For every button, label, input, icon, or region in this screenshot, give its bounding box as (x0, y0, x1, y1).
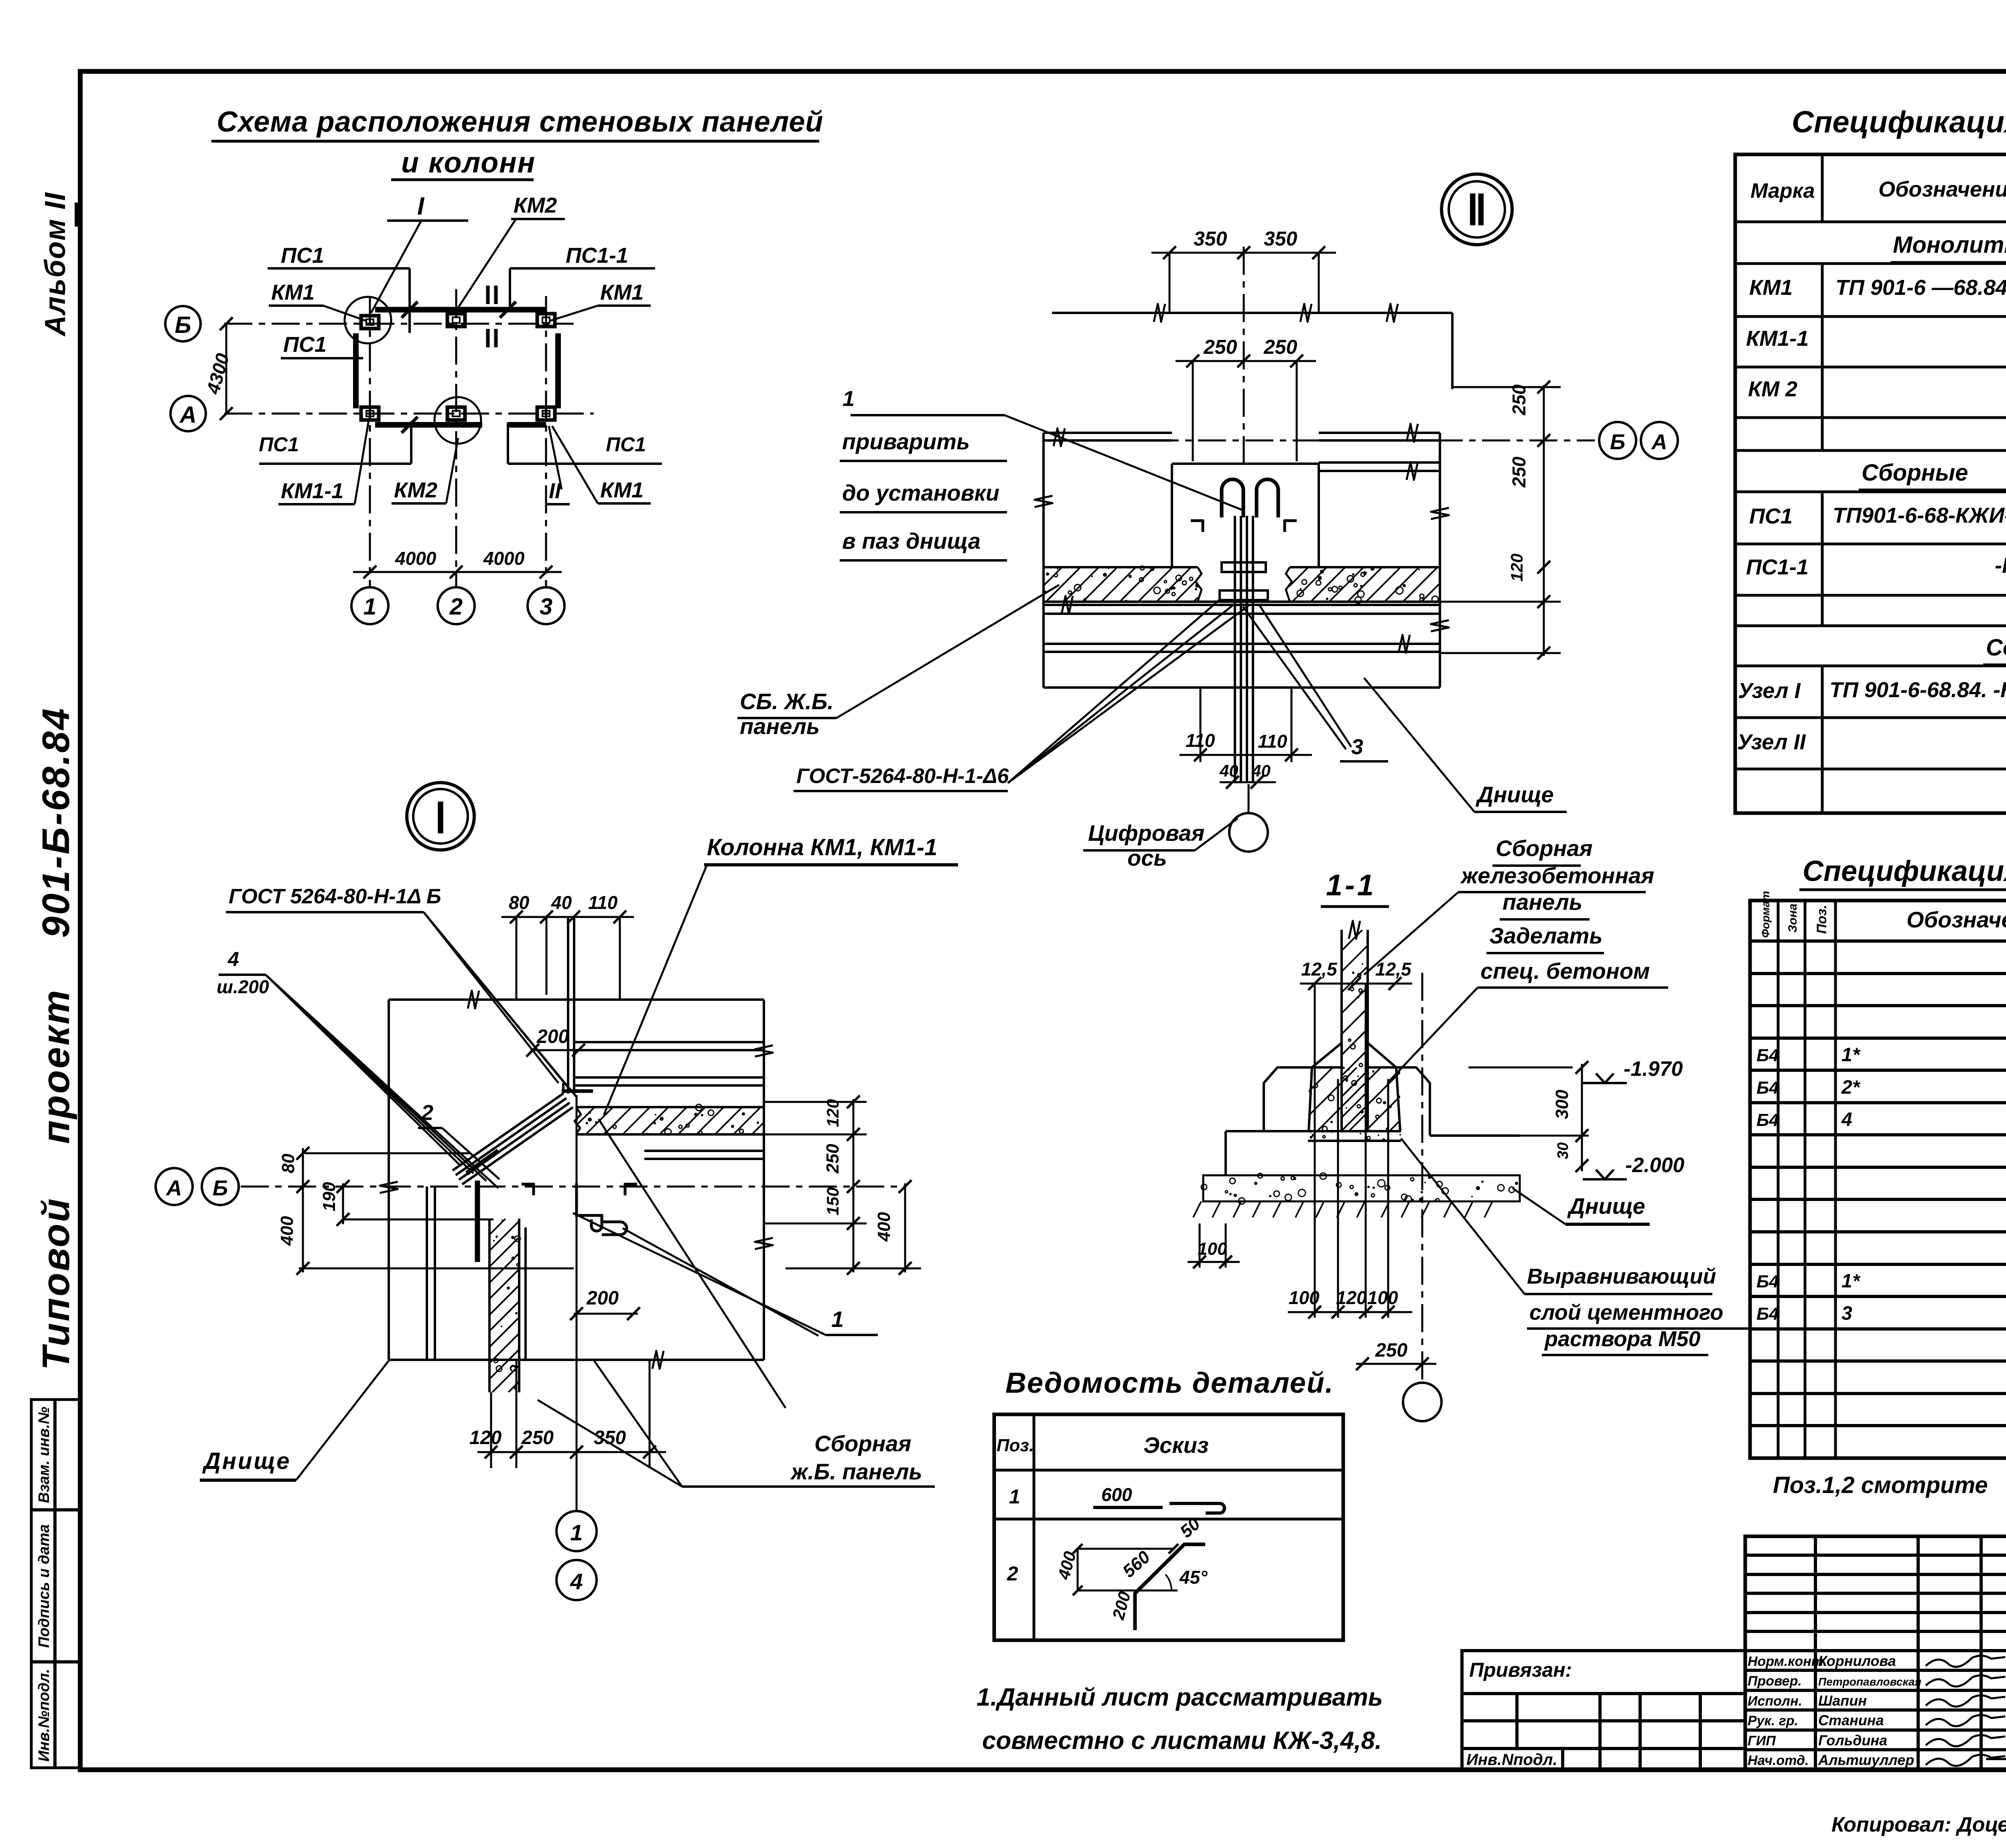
svg-text:Б4: Б4 (1756, 1046, 1779, 1065)
svg-text:350: 350 (1194, 227, 1227, 250)
svg-text:400: 400 (874, 1212, 894, 1242)
svg-text:ПС1: ПС1 (259, 433, 299, 456)
svg-text:Норм.конт.: Норм.конт. (1748, 1654, 1827, 1669)
svg-text:Взам. инв.№: Взам. инв.№ (36, 1407, 53, 1503)
svg-text:и колонн: и колонн (401, 147, 536, 179)
svg-text:110: 110 (588, 892, 618, 913)
svg-text:Б: Б (1610, 430, 1625, 454)
svg-text:I: I (417, 193, 425, 220)
svg-text:12,5: 12,5 (1375, 959, 1412, 980)
svg-text:ось: ось (1127, 845, 1167, 870)
svg-text:120: 120 (1507, 554, 1526, 582)
svg-text:Ведомость деталей.: Ведомость деталей. (1005, 1367, 1334, 1399)
svg-text:ш.200: ш.200 (217, 976, 269, 997)
svg-text:Днище: Днище (1476, 782, 1554, 807)
svg-text:Б: Б (213, 1176, 228, 1200)
svg-text:Обозначение: Обозначение (1907, 907, 2006, 932)
svg-text:спец. бетоном: спец. бетоном (1480, 958, 1650, 984)
svg-text:ГОСТ-5264-80-Н-1-Δ6: ГОСТ-5264-80-Н-1-Δ6 (796, 765, 1009, 788)
svg-text:100: 100 (1198, 1239, 1227, 1259)
svg-text:Формат: Формат (1759, 891, 1772, 938)
svg-text:Схема расположения стеновых па: Схема расположения стеновых панелей (217, 106, 823, 138)
svg-text:1*: 1* (1842, 1045, 1861, 1066)
svg-text:Шапин: Шапин (1818, 1692, 1867, 1709)
svg-text:120: 120 (469, 1427, 501, 1448)
svg-text:901-Б-68.84: 901-Б-68.84 (35, 707, 77, 938)
svg-text:раствора М50: раствора М50 (1544, 1327, 1700, 1351)
svg-text:40: 40 (1251, 761, 1271, 780)
svg-text:110: 110 (1258, 731, 1287, 752)
svg-text:1.Данный лист рассматрив: 1.Данный лист рассматривать (977, 1684, 1383, 1711)
svg-text:Б4: Б4 (1756, 1304, 1779, 1324)
svg-text:ПС1-1: ПС1-1 (566, 243, 628, 268)
svg-text:железобетонная: железобетонная (1460, 863, 1654, 888)
svg-text:Днище: Днище (1567, 1193, 1645, 1219)
svg-text:1: 1 (570, 1520, 583, 1545)
svg-text:Альбом II: Альбом II (39, 192, 71, 337)
svg-text:1: 1 (843, 387, 855, 411)
svg-text:-2.000: -2.000 (1625, 1154, 1685, 1177)
svg-text:Днище: Днище (202, 1448, 291, 1474)
svg-text:ТП 901-6 —68.84 КЖ-9: ТП 901-6 —68.84 КЖ-9 (1835, 276, 2006, 300)
svg-text:ПС1: ПС1 (281, 243, 324, 268)
svg-text:80: 80 (278, 1154, 298, 1173)
svg-text:слой цементного: слой цементного (1529, 1300, 1723, 1325)
svg-text:250: 250 (1509, 384, 1529, 416)
svg-text:1: 1 (831, 1306, 844, 1332)
svg-text:—: — (1986, 1745, 2006, 1770)
svg-text:Инв.№подл.: Инв.№подл. (36, 1669, 53, 1761)
svg-text:А: А (166, 1176, 182, 1200)
svg-text:Эскиз: Эскиз (1143, 1432, 1209, 1458)
svg-text:250: 250 (521, 1427, 554, 1448)
svg-text:КМ1: КМ1 (271, 280, 315, 304)
svg-text:Сборные: Сборные (1862, 460, 1968, 486)
svg-text:3: 3 (1842, 1303, 1852, 1324)
svg-text:Копировал: Доценко: Копировал: Доценко (1831, 1813, 2006, 1836)
svg-text:ПС1: ПС1 (606, 433, 646, 456)
svg-text:Узел II: Узел II (1737, 730, 1806, 754)
svg-text:Ⅰ: Ⅰ (434, 796, 447, 842)
svg-text:Обозначение: Обозначение (1878, 177, 2006, 201)
svg-text:80: 80 (509, 892, 530, 913)
svg-text:Монолитные: Монолитные (1893, 232, 2006, 258)
svg-text:Сборная: Сборная (814, 1431, 911, 1456)
svg-text:Узел I: Узел I (1738, 679, 1801, 703)
svg-text:Исполн.: Исполн. (1748, 1694, 1802, 1709)
svg-text:Спецификация: Спецификация (1803, 855, 2006, 887)
svg-text:Б4: Б4 (1756, 1272, 1779, 1292)
svg-text:3: 3 (540, 594, 552, 620)
svg-text:Колонна КМ1, КМ1-1: Колонна КМ1, КМ1-1 (707, 834, 937, 860)
svg-text:1: 1 (363, 594, 376, 620)
svg-text:Сборная: Сборная (1496, 836, 1592, 861)
svg-text:350: 350 (594, 1427, 626, 1448)
svg-text:Гольдина: Гольдина (1818, 1732, 1887, 1749)
svg-text:ГИП: ГИП (1748, 1733, 1776, 1749)
svg-text:ж.Б. панель: ж.Б. панель (790, 1459, 922, 1484)
svg-text:ПС1: ПС1 (1749, 504, 1793, 528)
svg-text:250: 250 (1509, 456, 1529, 488)
svg-text:до установки: до установки (842, 480, 999, 505)
svg-text:-КЖИ-1000: -КЖИ-1000 (1995, 554, 2006, 578)
svg-text:Поз.: Поз. (997, 1436, 1034, 1455)
svg-text:Корнилова: Корнилова (1818, 1653, 1896, 1669)
svg-text:КМ1: КМ1 (600, 478, 644, 502)
svg-text:КМ1-1: КМ1-1 (1746, 327, 1809, 351)
svg-text:3: 3 (1351, 735, 1363, 759)
svg-text:250: 250 (1203, 336, 1237, 358)
svg-text:в паз днища: в паз днища (842, 528, 981, 554)
svg-text:100: 100 (1367, 1287, 1398, 1308)
svg-text:совместно с листами КЖ-3,: совместно с листами КЖ-3,4,8. (982, 1727, 1382, 1755)
svg-text:проект: проект (35, 988, 77, 1144)
svg-text:2: 2 (1007, 1562, 1018, 1585)
svg-text:ТП901-6-68-КЖИ-1000: ТП901-6-68-КЖИ-1000 (1833, 503, 2006, 527)
svg-text:КМ2: КМ2 (514, 193, 557, 217)
svg-text:190: 190 (319, 1182, 339, 1211)
svg-text:250: 250 (1375, 1340, 1407, 1361)
svg-text:1-1: 1-1 (1326, 868, 1376, 902)
svg-text:Спецификация: Спецификация (1792, 105, 2006, 139)
svg-text:120: 120 (1336, 1287, 1367, 1308)
svg-text:4000: 4000 (395, 548, 437, 569)
svg-text:Цифровая: Цифровая (1088, 820, 1204, 846)
svg-text:Заделать: Заделать (1489, 923, 1603, 948)
svg-text:400: 400 (277, 1216, 297, 1246)
svg-text:Выравнивающий: Выравнивающий (1527, 1264, 1716, 1288)
svg-text:панель: панель (740, 714, 820, 739)
svg-text:Б4: Б4 (1756, 1110, 1779, 1130)
svg-text:45°: 45° (1179, 1567, 1208, 1588)
svg-text:4: 4 (570, 1569, 583, 1594)
svg-text:КМ1: КМ1 (600, 280, 644, 304)
svg-text:4000: 4000 (483, 548, 525, 569)
svg-text:ТП 901-6-68.84. -КЖ-2: ТП 901-6-68.84. -КЖ-2 (1829, 678, 2006, 702)
svg-text:110: 110 (1186, 730, 1215, 751)
svg-text:300: 300 (1552, 1089, 1572, 1119)
svg-text:250: 250 (823, 1144, 843, 1174)
svg-text:350: 350 (1264, 227, 1297, 250)
svg-text:100: 100 (1289, 1287, 1320, 1308)
svg-text:ГОСТ 5264-80-Н-1Δ Б: ГОСТ 5264-80-Н-1Δ Б (229, 885, 441, 908)
svg-text:200: 200 (536, 1026, 569, 1047)
svg-text:120: 120 (823, 1099, 842, 1127)
svg-text:2: 2 (449, 594, 463, 620)
svg-text:200: 200 (586, 1288, 619, 1309)
svg-text:Марка: Марка (1750, 179, 1815, 203)
svg-text:1*: 1* (1842, 1271, 1861, 1292)
svg-text:Соединительные: Соединительные (1986, 635, 2006, 661)
svg-text:Зона: Зона (1786, 904, 1799, 933)
svg-text:Рук. гр.: Рук. гр. (1748, 1713, 1798, 1728)
svg-text:КМ1-1: КМ1-1 (281, 479, 343, 503)
svg-text:Ⅱ: Ⅱ (1466, 188, 1487, 234)
svg-text:250: 250 (1263, 336, 1297, 358)
svg-text:КМ1: КМ1 (1749, 276, 1793, 300)
svg-text:Привязан:: Привязан: (1469, 1659, 1572, 1681)
svg-text:600: 600 (1101, 1484, 1132, 1505)
svg-text:А: А (1651, 430, 1667, 454)
svg-text:приварить: приварить (842, 429, 970, 454)
svg-text:4: 4 (1841, 1109, 1852, 1130)
svg-text:Поз.1,2 смотрите: Поз.1,2 смотрите (1773, 1472, 1988, 1498)
svg-text:КМ 2: КМ 2 (1748, 377, 1797, 401)
svg-text:СБ. Ж.Б.: СБ. Ж.Б. (740, 689, 834, 714)
svg-text:А: А (179, 402, 197, 428)
svg-text:Б4: Б4 (1756, 1078, 1779, 1097)
svg-text:150: 150 (823, 1187, 842, 1215)
svg-text:Подпись и дата: Подпись и дата (36, 1524, 53, 1648)
svg-text:2*: 2* (1841, 1077, 1861, 1098)
svg-text:ПС1: ПС1 (283, 333, 327, 357)
svg-text:2: 2 (421, 1101, 433, 1125)
svg-text:Инв.Nподл.: Инв.Nподл. (1466, 1751, 1557, 1769)
svg-text:40: 40 (551, 892, 572, 913)
svg-text:ПС1-1: ПС1-1 (1746, 555, 1809, 579)
svg-text:Провер.: Провер. (1748, 1674, 1802, 1689)
svg-text:40: 40 (1219, 761, 1239, 780)
svg-text:Станина: Станина (1818, 1712, 1884, 1728)
svg-text:30: 30 (1555, 1142, 1572, 1159)
svg-text:Нач.отд.: Нач.отд. (1748, 1753, 1809, 1768)
svg-text:Б: Б (175, 312, 191, 338)
svg-text:1: 1 (1009, 1485, 1020, 1508)
svg-text:-1.970: -1.970 (1624, 1057, 1683, 1081)
svg-text:КМ2: КМ2 (394, 478, 437, 502)
svg-text:4: 4 (227, 948, 239, 970)
svg-text:панель: панель (1502, 889, 1582, 915)
svg-text:12,5: 12,5 (1301, 959, 1338, 980)
svg-text:Поз.: Поз. (1814, 905, 1829, 934)
svg-text:Альтшуллер: Альтшуллер (1818, 1752, 1914, 1768)
svg-text:Типовой: Типовой (35, 1197, 77, 1370)
svg-text:Петропавловская: Петропавловская (1818, 1676, 1921, 1688)
